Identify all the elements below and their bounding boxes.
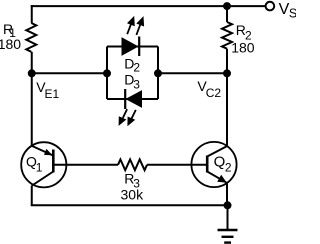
node VE1 bbox=[28, 69, 36, 77]
wire R2 bottom to node VC2 bbox=[226, 49, 228, 73]
resistor R2 bbox=[222, 22, 232, 49]
LED D3 bbox=[125, 89, 141, 109]
svg-text:Q: Q bbox=[214, 154, 226, 171]
wire LED top branch bbox=[107, 46, 158, 48]
node LED loop right bbox=[154, 69, 162, 77]
node top (R2 / Vs rail junction) bbox=[223, 2, 231, 10]
terminal Vs bbox=[266, 2, 275, 11]
wire LED bottom branch bbox=[107, 98, 158, 100]
wire bottom rail bbox=[31, 204, 228, 206]
wire VC2 down to Q2 collector bbox=[226, 73, 228, 146]
svg-text:S: S bbox=[289, 6, 296, 20]
LED D3 light arrow 1 bbox=[119, 109, 128, 126]
svg-text:180: 180 bbox=[0, 36, 21, 52]
node bottom (emitter / ground junction) bbox=[224, 201, 232, 209]
transistor Q2 (NPN) bbox=[191, 142, 236, 187]
resistor R1 bbox=[26, 23, 36, 52]
wire top rail bbox=[31, 5, 266, 7]
wire VE1 down to Q1 emitter bbox=[31, 73, 33, 145]
LED D2 bbox=[122, 37, 139, 57]
svg-text:2: 2 bbox=[225, 160, 232, 174]
wire LED loop right to node VC2 bbox=[158, 72, 227, 74]
wire R1 bottom to node VE1 bbox=[31, 52, 33, 74]
svg-text:3: 3 bbox=[133, 78, 140, 92]
wire right rail top bbox=[226, 5, 228, 22]
svg-text:180: 180 bbox=[231, 39, 255, 55]
svg-text:1: 1 bbox=[36, 160, 43, 174]
wire node VE1 to LED loop left bbox=[32, 72, 107, 74]
LED D2 light arrow 1 bbox=[127, 16, 135, 34]
LED D2 light arrow 2 bbox=[136, 16, 144, 35]
transistor Q1 (PNP) bbox=[21, 142, 66, 187]
wire LED loop right vertical bbox=[157, 47, 159, 100]
wire LED loop left vertical bbox=[106, 47, 108, 100]
wire Q2 emitter down to bottom node bbox=[226, 183, 228, 205]
LED D3 light arrow 2 bbox=[127, 110, 135, 126]
node VC2 bbox=[223, 69, 231, 77]
svg-text:E1: E1 bbox=[45, 87, 60, 101]
wire R3 to Q2 base lead bbox=[147, 164, 207, 166]
node LED loop left bbox=[103, 69, 111, 77]
wire left rail top bbox=[31, 5, 33, 23]
resistor R3 30k bbox=[118, 159, 147, 170]
wire Q1 collector down to bottom rail bbox=[31, 186, 33, 206]
svg-text:30k: 30k bbox=[121, 187, 145, 203]
ground bbox=[218, 205, 238, 242]
svg-text:C2: C2 bbox=[206, 86, 222, 100]
svg-text:2: 2 bbox=[133, 61, 140, 75]
wire Q1 base lead to R3 bbox=[53, 164, 118, 166]
